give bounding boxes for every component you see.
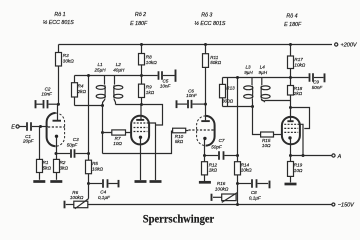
- resistor R19 10Ω: [288, 156, 303, 183]
- node anode of tube3 C6 junction: [204, 103, 207, 106]
- tube label Rö4: [284, 14, 302, 29]
- tube label Rö1: [43, 12, 74, 26]
- wire transformer2 primary top: [223, 77, 291, 79]
- tube4 grid g2 dashed: [284, 127, 298, 129]
- tube4 grid g1 dashed: [284, 131, 298, 133]
- resistor R5 10kΩ: [86, 154, 104, 184]
- svg-text:10nF: 10nF: [186, 93, 198, 98]
- wire L3 bottom down to R15: [253, 107, 261, 135]
- svg-text:50nF: 50nF: [312, 85, 324, 90]
- svg-text:0,1µF: 0,1µF: [249, 195, 262, 200]
- svg-text:25µH: 25µH: [93, 67, 106, 72]
- tube1 cathode: [55, 135, 58, 154]
- title Sperrschwinger: [143, 213, 215, 226]
- svg-text:100kΩ: 100kΩ: [215, 187, 229, 192]
- node R8 R9 C5 junction: [140, 74, 143, 77]
- resistor R18 2kΩ: [288, 78, 303, 108]
- tube3 grid dashed line: [189, 129, 215, 131]
- node R16 on -150V rail: [236, 203, 239, 206]
- node anode of tube1: [57, 103, 60, 106]
- tube1 anode plate: [53, 104, 62, 121]
- svg-text:R19: R19: [294, 162, 303, 167]
- tube3 cathode: [203, 137, 206, 156]
- svg-text:L3: L3: [245, 65, 251, 70]
- svg-text:R12: R12: [209, 162, 218, 167]
- svg-text:R4: R4: [78, 84, 84, 89]
- inductor L2 40µH: [113, 62, 125, 104]
- wire transformer bottom left: [75, 105, 103, 107]
- svg-text:10nF: 10nF: [160, 84, 172, 89]
- svg-text:5kΩ: 5kΩ: [43, 165, 52, 170]
- svg-text:10nF: 10nF: [41, 92, 53, 97]
- node C3 R5 junction: [87, 152, 90, 155]
- resistor R8 10kΩ: [139, 45, 158, 76]
- terminal +200V: [335, 42, 358, 48]
- svg-text:C9: C9: [313, 79, 319, 84]
- tube2 grid g2 dashed: [134, 127, 148, 129]
- open T terminal left of R6: [64, 201, 66, 209]
- svg-text:2kΩ: 2kΩ: [293, 91, 303, 96]
- node L1 bottom: [101, 104, 104, 107]
- node R14 C8 R16 junction: [236, 182, 239, 185]
- node R17 top on rail: [289, 43, 292, 46]
- svg-text:+200V: +200V: [341, 42, 358, 48]
- capacitor C6 10nF with open T terminal: [177, 88, 205, 108]
- tube label Rö2: [130, 12, 148, 27]
- svg-text:10Ω: 10Ω: [262, 143, 271, 148]
- resistor R12 1kΩ: [202, 156, 218, 182]
- node C7 R14 junction: [236, 154, 239, 157]
- svg-text:C7: C7: [219, 138, 225, 143]
- terminal -150V: [332, 202, 355, 208]
- node R11 top on rail: [204, 43, 207, 46]
- inductor L1 25µH: [93, 62, 106, 105]
- ground below tube2 cathode: [135, 180, 147, 183]
- capacitor C8 0.1µF with open T terminal: [238, 179, 270, 200]
- svg-text:100kΩ: 100kΩ: [70, 195, 84, 200]
- potentiometer R6 100kΩ: [66, 184, 89, 209]
- wire tube4 g3 to cathode node: [300, 124, 303, 155]
- capacitor C1 20pF: [22, 122, 48, 143]
- svg-text:Rö 2: Rö 2: [135, 12, 146, 18]
- svg-text:L4: L4: [260, 65, 266, 70]
- svg-text:Rö 4: Rö 4: [286, 14, 297, 20]
- svg-text:50kΩ: 50kΩ: [210, 60, 221, 65]
- pentode tube4 E180F envelope: [282, 117, 300, 144]
- wire R13 loop right side: [227, 78, 229, 107]
- pentode tube2 E180F envelope: [131, 116, 149, 145]
- node cathode of tube3: [203, 154, 206, 157]
- capacitor C9 50nF with open T terminal: [292, 73, 325, 90]
- tube2 anode plate: [136, 105, 144, 120]
- svg-text:A: A: [337, 154, 342, 160]
- tube2 grid g1 dashed: [134, 131, 148, 133]
- svg-text:R1: R1: [43, 160, 49, 165]
- wire -150V bottom supply rail: [88, 204, 332, 206]
- wire anode of tube4 to screen strap: [291, 108, 310, 129]
- svg-text:C2: C2: [45, 86, 51, 91]
- svg-text:R3: R3: [63, 53, 69, 58]
- node g3 on output wire: [302, 154, 305, 157]
- svg-text:−150V: −150V: [338, 202, 355, 208]
- potentiometer R16 100kΩ: [213, 181, 238, 205]
- svg-text:30kΩ: 30kΩ: [63, 59, 74, 64]
- node R5 C4 R6 junction: [87, 182, 90, 185]
- resistor R1 5kΩ: [37, 159, 52, 179]
- svg-text:1kΩ: 1kΩ: [146, 90, 155, 95]
- resistor R11 50kΩ: [203, 45, 222, 105]
- svg-text:½ ECC 801S: ½ ECC 801S: [194, 20, 225, 27]
- svg-text:10kΩ: 10kΩ: [294, 62, 305, 67]
- terminal E input: [11, 124, 26, 130]
- svg-text:E 180F: E 180F: [284, 22, 302, 28]
- capacitor C2 10nF with open T terminal: [36, 86, 58, 108]
- svg-text:R2: R2: [60, 160, 66, 165]
- node L3 bottom: [251, 105, 254, 108]
- svg-text:Rö 1: Rö 1: [54, 12, 65, 18]
- capacitor C5 10nF with open T terminal: [143, 70, 176, 89]
- tube4 grid g3 dashed: [284, 123, 299, 125]
- ground below R19: [285, 183, 297, 186]
- svg-text:C4: C4: [100, 190, 106, 195]
- resistor R3 30kΩ: [56, 45, 75, 105]
- svg-text:C3: C3: [73, 137, 79, 142]
- inductor L4 9µH: [259, 65, 271, 103]
- node grid of tube1: [39, 125, 42, 128]
- svg-text:10Ω: 10Ω: [294, 168, 303, 173]
- resistor R13 800Ω: [220, 78, 236, 107]
- svg-text:Rö 3: Rö 3: [201, 13, 212, 19]
- svg-text:10kΩ: 10kΩ: [92, 166, 103, 171]
- wire grid node to R1: [39, 127, 41, 160]
- open T terminal left of R16: [211, 194, 213, 201]
- svg-text:R8: R8: [146, 54, 152, 59]
- node transformer top tap: [87, 74, 90, 77]
- terminal A output: [332, 154, 342, 160]
- svg-text:R9: R9: [146, 85, 152, 90]
- resistor R7 10Ω: [103, 130, 132, 146]
- wire transformer2 bottom left: [223, 106, 253, 108]
- svg-text:2kΩ: 2kΩ: [77, 89, 87, 94]
- node R8 top on rail: [140, 43, 143, 46]
- svg-text:R14: R14: [241, 162, 250, 167]
- svg-text:R6: R6: [72, 190, 78, 195]
- resistor R2 3kΩ: [54, 154, 69, 180]
- svg-text:40µH: 40µH: [113, 67, 125, 72]
- tube2 cathode: [139, 136, 142, 181]
- ground below R12: [199, 181, 211, 184]
- node transformer2 top tap: [236, 76, 239, 79]
- svg-text:1kΩ: 1kΩ: [209, 168, 218, 173]
- wire L1 bottom down to R7 node and to lower run: [102, 106, 104, 154]
- capacitor C3 50pF: [57, 137, 88, 158]
- tube1 grid dashed line: [48, 126, 65, 128]
- node cathode of tube4: [289, 154, 292, 157]
- capacitor C4 0.1µF with open T terminal: [89, 179, 119, 200]
- svg-text:R18: R18: [294, 86, 303, 91]
- svg-text:10kΩ: 10kΩ: [146, 60, 157, 65]
- node anode of tube4: [289, 106, 292, 109]
- svg-text:50pF: 50pF: [67, 142, 79, 147]
- svg-text:20pF: 20pF: [22, 139, 35, 144]
- ground below R1: [33, 180, 45, 183]
- wire L4 bottom to R18 lead: [265, 100, 291, 102]
- svg-text:R17: R17: [294, 57, 303, 62]
- inductor L3 9µH: [244, 65, 254, 107]
- svg-text:L1: L1: [97, 62, 103, 67]
- svg-text:0,1µF: 0,1µF: [98, 195, 111, 200]
- resistor R14 10kΩ: [235, 156, 253, 184]
- wire +200V top supply rail: [59, 44, 333, 46]
- resistor R9 1kΩ: [139, 76, 155, 105]
- svg-text:R11: R11: [210, 55, 219, 60]
- wire L2 bottom to anode node of tube2: [116, 104, 142, 106]
- resistor R15 10Ω: [261, 132, 282, 148]
- tube3 anode plate: [201, 104, 210, 121]
- tube label Rö3: [194, 13, 225, 28]
- svg-text:E 180F: E 180F: [130, 21, 148, 27]
- wire transformer top tap down to C3/R5 node: [88, 76, 90, 154]
- svg-text:10kΩ: 10kΩ: [241, 168, 252, 173]
- triode tube1 half ECC801S envelope: [47, 113, 65, 146]
- svg-text:½ ECC 801S: ½ ECC 801S: [43, 19, 74, 26]
- wire transformer2 top tap down to C7/R14 node: [237, 78, 239, 156]
- ground below R2: [50, 180, 62, 183]
- svg-text:5kΩ: 5kΩ: [175, 139, 184, 144]
- svg-text:50pF: 50pF: [211, 145, 223, 150]
- resistor R17 10kΩ: [288, 45, 306, 78]
- resistor R10 5kΩ: [173, 128, 189, 144]
- svg-text:9µH: 9µH: [244, 70, 253, 75]
- svg-text:Sperrschwinger: Sperrschwinger: [143, 213, 215, 226]
- tube2 grid g3 dashed: [134, 122, 149, 124]
- svg-text:3kΩ: 3kΩ: [60, 165, 69, 170]
- svg-text:C8: C8: [251, 190, 257, 195]
- wire lower run from R7 node to R10: [103, 131, 172, 154]
- tube4 anode plate: [287, 108, 293, 122]
- svg-text:R16: R16: [217, 181, 226, 186]
- capacitor C7 50pF: [206, 138, 237, 160]
- svg-text:E: E: [11, 124, 15, 130]
- svg-text:R5: R5: [92, 161, 98, 166]
- triode tube3 half ECC801S envelope: [197, 116, 215, 146]
- wire output A: [291, 155, 332, 157]
- wire transformer primary top: [75, 75, 142, 77]
- wire anode of tube2 to screen strap: [142, 105, 163, 126]
- node cathode of tube1: [55, 152, 58, 155]
- node transformer secondary to R7: [101, 131, 104, 134]
- resistor R4 2kΩ: [72, 76, 87, 106]
- node anode of tube2: [140, 103, 143, 106]
- svg-text:10Ω: 10Ω: [113, 141, 122, 146]
- svg-text:9µH: 9µH: [259, 70, 268, 75]
- wire tube2 g3 to ground lead: [149, 123, 156, 180]
- tube4 cathode: [288, 136, 291, 155]
- ground below tube2 grid lead: [150, 180, 162, 183]
- svg-text:L2: L2: [116, 62, 122, 67]
- node R17 R18 C9 junction: [289, 76, 292, 79]
